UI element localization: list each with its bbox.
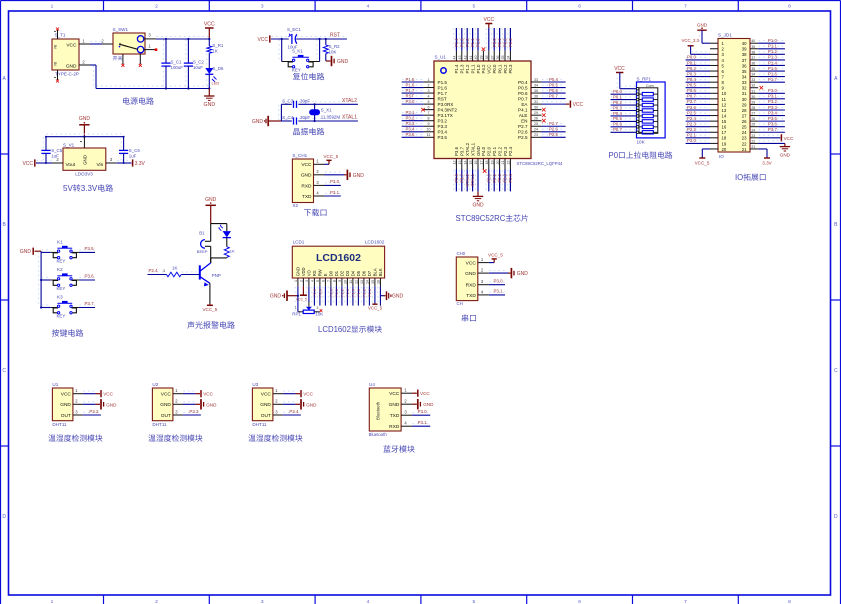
svg-text:P2.2: P2.2 — [687, 127, 696, 132]
svg-text:VCC: VCC — [466, 261, 477, 267]
svg-text:RXD: RXD — [466, 283, 477, 289]
svg-text:P3.3: P3.3 — [768, 105, 777, 110]
svg-text:1: 1 — [295, 306, 297, 310]
svg-text:P0.4: P0.4 — [613, 111, 622, 116]
svg-text:10uF: 10uF — [193, 65, 203, 70]
svg-text:12: 12 — [722, 102, 727, 107]
svg-text:BLK: BLK — [378, 268, 383, 276]
svg-text:P3.1: P3.1 — [418, 420, 428, 425]
svg-text:GND: GND — [204, 102, 216, 108]
svg-text:4: 4 — [428, 94, 430, 98]
svg-text:GND: GND — [252, 119, 264, 125]
svg-text:27: 27 — [751, 112, 755, 116]
svg-text:RST: RST — [438, 96, 447, 101]
svg-text:P1.7: P1.7 — [438, 91, 448, 96]
svg-text:D3: D3 — [345, 270, 350, 276]
svg-text:Bluetooth: Bluetooth — [376, 401, 381, 420]
svg-text:VCC: VCC — [389, 391, 400, 397]
svg-text:P2.2: P2.2 — [497, 173, 502, 182]
svg-text:8: 8 — [428, 117, 430, 121]
svg-text:VCC: VCC — [61, 392, 72, 398]
svg-text:P1.6: P1.6 — [406, 82, 415, 87]
svg-text:D0: D0 — [329, 270, 334, 276]
svg-text:P1.3: P1.3 — [459, 38, 464, 47]
svg-text:P2.5: P2.5 — [687, 110, 696, 115]
svg-text:XTAL1: XTAL1 — [342, 115, 357, 121]
svg-text:GND: GND — [476, 146, 481, 156]
svg-text:P2.6: P2.6 — [687, 105, 696, 110]
svg-text:15: 15 — [371, 280, 375, 284]
svg-text:P3.7: P3.7 — [85, 301, 95, 306]
svg-text:P3.3: P3.3 — [438, 124, 448, 129]
svg-text:10K: 10K — [315, 312, 323, 317]
svg-text:P4.2: P4.2 — [481, 64, 486, 74]
svg-text:P1.3: P1.3 — [367, 289, 372, 297]
svg-text:44: 44 — [453, 56, 457, 60]
svg-text:XTAL2: XTAL2 — [465, 142, 470, 156]
svg-text:24: 24 — [534, 128, 538, 132]
svg-text:D7: D7 — [367, 270, 372, 276]
svg-text:9: 9 — [428, 122, 430, 126]
svg-text:D2: D2 — [340, 270, 345, 276]
svg-text:E: E — [323, 273, 328, 276]
svg-text:8: 8 — [788, 599, 791, 604]
svg-text:P2.0: P2.0 — [687, 138, 696, 143]
svg-text:P2.0: P2.0 — [486, 173, 491, 182]
svg-text:26: 26 — [534, 117, 538, 121]
svg-text:8: 8 — [333, 280, 337, 282]
svg-text:LCD1602: LCD1602 — [365, 240, 385, 245]
svg-text:4: 4 — [367, 3, 370, 9]
svg-text:S_V1: S_V1 — [63, 142, 75, 147]
svg-text:P3.5: P3.5 — [85, 246, 95, 251]
svg-text:ALE: ALE — [519, 113, 528, 118]
svg-text:S_RP1: S_RP1 — [637, 76, 652, 81]
svg-text:GND: GND — [205, 197, 217, 203]
svg-text:3: 3 — [305, 280, 309, 282]
svg-text:21: 21 — [742, 147, 747, 152]
svg-text:S_D6: S_D6 — [212, 66, 224, 71]
svg-text:P1.1: P1.1 — [470, 38, 475, 47]
svg-text:24: 24 — [742, 130, 747, 135]
svg-text:P0.0: P0.0 — [613, 89, 622, 94]
svg-text:34: 34 — [507, 56, 511, 60]
svg-text:P1.1: P1.1 — [768, 44, 777, 49]
svg-text:41: 41 — [469, 56, 473, 60]
svg-text:P0.5: P0.5 — [549, 82, 558, 87]
svg-text:13: 13 — [458, 161, 462, 165]
svg-text:P3.7: P3.7 — [768, 127, 777, 132]
svg-text:P3.2: P3.2 — [89, 409, 99, 414]
svg-text:6: 6 — [322, 280, 326, 282]
svg-text:GND: GND — [697, 22, 708, 27]
svg-text:GND: GND — [160, 402, 171, 408]
svg-text:100uF: 100uF — [171, 65, 184, 70]
svg-text:P1.4: P1.4 — [768, 60, 777, 65]
svg-text:12: 12 — [453, 161, 457, 165]
svg-text:11: 11 — [427, 133, 431, 137]
svg-text:GND: GND — [270, 294, 282, 300]
svg-text:P3.0: P3.0 — [494, 279, 504, 284]
svg-text:1uF: 1uF — [51, 153, 59, 158]
svg-text:28: 28 — [751, 106, 755, 110]
svg-text:16: 16 — [377, 280, 381, 284]
svg-text:17: 17 — [722, 130, 727, 135]
svg-text:36: 36 — [751, 61, 755, 65]
svg-text:10: 10 — [344, 280, 348, 284]
svg-text:P0.6: P0.6 — [687, 88, 696, 93]
svg-text:P0.4: P0.4 — [518, 80, 528, 85]
svg-text:RS: RS — [312, 270, 317, 276]
svg-text:P2.6: P2.6 — [518, 130, 528, 135]
svg-text:3.3V: 3.3V — [135, 161, 146, 167]
svg-text:34: 34 — [751, 73, 755, 77]
svg-text:LED: LED — [212, 81, 220, 86]
svg-text:5: 5 — [472, 3, 475, 9]
svg-text:P0.5: P0.5 — [518, 85, 528, 90]
svg-text:VB: VB — [54, 61, 58, 66]
svg-text:C: C — [2, 368, 6, 374]
svg-text:CH: CH — [457, 301, 463, 306]
svg-text:VCC_3.3: VCC_3.3 — [682, 38, 700, 43]
svg-text:P2.5: P2.5 — [549, 132, 558, 137]
svg-text:VCC: VCC — [420, 391, 430, 396]
svg-text:P4.3INT2: P4.3INT2 — [438, 108, 458, 113]
svg-text:P3.5: P3.5 — [768, 116, 777, 121]
svg-text:S_EC1: S_EC1 — [287, 27, 301, 32]
svg-text:28: 28 — [742, 108, 747, 113]
svg-text:P3.7: P3.7 — [459, 173, 464, 182]
svg-text:43: 43 — [458, 56, 462, 60]
svg-text:P1.5: P1.5 — [768, 66, 777, 71]
svg-text:2: 2 — [155, 3, 158, 9]
svg-text:22: 22 — [742, 141, 747, 146]
svg-text:KEY: KEY — [57, 314, 66, 319]
svg-text:GND: GND — [306, 402, 317, 407]
svg-text:P3.3: P3.3 — [189, 409, 199, 414]
svg-text:VCC: VCC — [484, 17, 495, 23]
svg-text:P3.2: P3.2 — [406, 116, 415, 121]
svg-text:GND: GND — [517, 271, 529, 277]
svg-text:P3.6: P3.6 — [454, 173, 459, 182]
svg-text:P0.2: P0.2 — [503, 64, 508, 74]
svg-text:S_U1: S_U1 — [435, 55, 447, 60]
svg-text:25: 25 — [751, 123, 755, 127]
svg-text:P2.0: P2.0 — [329, 288, 334, 297]
svg-text:VCC: VCC — [103, 392, 113, 397]
svg-text:P2.7: P2.7 — [549, 121, 558, 126]
svg-text:P0.2: P0.2 — [613, 100, 622, 105]
svg-text:OUT: OUT — [61, 413, 71, 419]
svg-text:XTAL1: XTAL1 — [470, 142, 475, 156]
svg-text:P3.7: P3.7 — [460, 146, 465, 156]
svg-text:Vin: Vin — [96, 162, 103, 168]
svg-text:OUT: OUT — [161, 413, 171, 419]
svg-text:P0.5: P0.5 — [613, 116, 622, 121]
svg-text:P2.5: P2.5 — [518, 135, 528, 140]
svg-text:U1: U1 — [52, 382, 58, 387]
svg-text:P3.6: P3.6 — [85, 273, 95, 278]
svg-text:36: 36 — [742, 63, 747, 68]
svg-text:P0.0: P0.0 — [492, 38, 497, 47]
svg-text:STC89C52RC: STC89C52RC — [456, 214, 506, 223]
svg-text:9: 9 — [338, 280, 342, 282]
svg-text:P2.2: P2.2 — [497, 146, 502, 156]
svg-text:S_JD1: S_JD1 — [718, 33, 732, 38]
svg-text:RST: RST — [330, 33, 340, 39]
svg-text:VCC: VCC — [261, 392, 272, 398]
svg-text:DHT11: DHT11 — [252, 422, 267, 427]
svg-text:VCC: VCC — [487, 65, 492, 74]
svg-text:13: 13 — [360, 280, 364, 284]
svg-text:S_CH1: S_CH1 — [292, 153, 307, 158]
svg-text:K1: K1 — [57, 240, 63, 245]
svg-text:32: 32 — [742, 86, 747, 91]
svg-text:23: 23 — [742, 136, 747, 141]
svg-text:Com: Com — [646, 84, 654, 88]
svg-text:33: 33 — [534, 78, 538, 82]
svg-text:XTAL2: XTAL2 — [465, 173, 470, 186]
svg-text:37: 37 — [490, 56, 494, 60]
svg-text:VCC: VCC — [301, 162, 312, 168]
svg-text:2: 2 — [155, 599, 158, 604]
svg-text:XTAL1: XTAL1 — [470, 173, 475, 186]
svg-text:1: 1 — [294, 280, 298, 282]
svg-text:33: 33 — [742, 80, 747, 85]
svg-text:30pF: 30pF — [300, 98, 310, 103]
svg-text:3.3V: 3.3V — [81, 184, 98, 193]
svg-text:5V: 5V — [63, 184, 73, 193]
svg-text:P2.1: P2.1 — [334, 289, 339, 297]
svg-text:8: 8 — [788, 3, 791, 9]
svg-text:P1.1: P1.1 — [470, 64, 475, 74]
svg-text:36: 36 — [496, 56, 500, 60]
svg-text:14: 14 — [722, 113, 727, 118]
svg-text:U2: U2 — [152, 382, 158, 387]
svg-text:EN: EN — [521, 119, 527, 124]
svg-text:P3.3: P3.3 — [406, 121, 415, 126]
svg-text:VCC: VCC — [161, 392, 172, 398]
svg-text:1K: 1K — [172, 266, 177, 271]
svg-text:P1.4: P1.4 — [454, 38, 459, 47]
svg-text:P0.1: P0.1 — [497, 38, 502, 47]
svg-text:P0: P0 — [609, 151, 619, 160]
svg-text:VCC_5: VCC_5 — [488, 252, 503, 257]
svg-text:11.0592M: 11.0592M — [321, 115, 341, 120]
svg-text:P3.0: P3.0 — [768, 88, 777, 93]
svg-text:P0.1: P0.1 — [687, 60, 696, 65]
svg-text:P2.4: P2.4 — [149, 268, 159, 273]
svg-text:P1.1: P1.1 — [356, 289, 361, 297]
svg-text:27: 27 — [742, 113, 747, 118]
svg-text:P0.3: P0.3 — [687, 71, 696, 76]
svg-text:35: 35 — [501, 56, 505, 60]
svg-text:LCD1602: LCD1602 — [316, 252, 361, 264]
svg-text:P2.1: P2.1 — [492, 173, 497, 182]
svg-text:P2.3: P2.3 — [687, 121, 696, 126]
svg-text:25: 25 — [742, 125, 747, 130]
svg-text:S_C4: S_C4 — [282, 115, 294, 120]
svg-text:14: 14 — [366, 280, 370, 284]
svg-text:P0.1: P0.1 — [497, 64, 502, 74]
svg-text:D1: D1 — [334, 270, 339, 276]
svg-text:GND: GND — [780, 152, 791, 157]
svg-text:P1.2: P1.2 — [465, 38, 470, 47]
svg-text:35: 35 — [751, 67, 755, 71]
svg-text:P0.7: P0.7 — [687, 94, 696, 99]
svg-text:P2.6: P2.6 — [549, 127, 558, 132]
svg-text:32: 32 — [751, 84, 755, 88]
svg-text:31: 31 — [751, 89, 755, 93]
svg-text:P1.0: P1.0 — [476, 38, 481, 47]
svg-text:CH0: CH0 — [457, 251, 466, 256]
svg-text:BEEP: BEEP — [197, 249, 208, 254]
svg-text:10: 10 — [427, 128, 431, 132]
svg-text:S_C3: S_C3 — [282, 98, 294, 103]
svg-text:VCC: VCC — [573, 102, 584, 108]
svg-text:30: 30 — [751, 95, 755, 99]
svg-text:VCC: VCC — [22, 161, 33, 167]
svg-text:13: 13 — [722, 108, 727, 113]
svg-text:P1.2: P1.2 — [465, 64, 470, 74]
svg-text:D4: D4 — [351, 270, 356, 276]
svg-text:P1.0: P1.0 — [768, 38, 777, 43]
svg-text:GND: GND — [423, 402, 434, 407]
svg-text:XTAL2: XTAL2 — [342, 98, 357, 104]
svg-text:RW: RW — [318, 269, 323, 276]
svg-text:P1.0: P1.0 — [351, 288, 356, 297]
svg-text:P1.2: P1.2 — [362, 289, 367, 297]
svg-text:35: 35 — [534, 89, 538, 93]
svg-text:P1.2: P1.2 — [768, 49, 777, 54]
svg-text:7: 7 — [684, 599, 687, 604]
svg-text:16: 16 — [474, 161, 478, 165]
svg-text:29: 29 — [742, 102, 747, 107]
svg-text:34: 34 — [534, 83, 538, 87]
svg-text:4: 4 — [311, 280, 315, 282]
svg-text:P3.6: P3.6 — [454, 146, 459, 156]
svg-text:GND: GND — [206, 402, 217, 407]
svg-text:KEY: KEY — [57, 286, 66, 291]
svg-text:P3.1: P3.1 — [406, 110, 415, 115]
svg-text:2: 2 — [428, 83, 430, 87]
svg-text:C: C — [834, 368, 838, 374]
svg-text:7: 7 — [684, 3, 687, 9]
svg-text:24: 24 — [751, 128, 755, 132]
svg-text:P2.1: P2.1 — [687, 133, 696, 138]
svg-text:P3.4: P3.4 — [406, 127, 415, 132]
svg-text:3: 3 — [163, 269, 165, 273]
svg-text:IO: IO — [735, 173, 743, 182]
svg-text:14: 14 — [463, 161, 467, 165]
svg-text:39: 39 — [742, 47, 747, 52]
svg-text:P2.4: P2.4 — [687, 116, 696, 121]
svg-text:P3.4: P3.4 — [438, 130, 448, 135]
svg-text:P0.0: P0.0 — [492, 64, 497, 74]
svg-text:15: 15 — [469, 161, 473, 165]
svg-text:22: 22 — [507, 160, 511, 164]
svg-text:25: 25 — [534, 122, 538, 126]
svg-text:VCC: VCC — [257, 37, 268, 43]
svg-text:P3.0: P3.0 — [406, 99, 415, 104]
svg-text:GND: GND — [20, 249, 32, 255]
svg-text:EA: EA — [521, 102, 528, 107]
svg-text:P1.3: P1.3 — [460, 64, 465, 74]
svg-text:P3.0: P3.0 — [418, 409, 428, 414]
svg-text:U4: U4 — [369, 382, 375, 387]
svg-text:TXD: TXD — [466, 293, 476, 299]
svg-text:VCC_5: VCC_5 — [368, 305, 383, 310]
svg-text:GND: GND — [301, 173, 312, 179]
svg-text:P2.2: P2.2 — [340, 289, 345, 297]
svg-text:Bluetooth: Bluetooth — [369, 432, 388, 437]
svg-text:18: 18 — [722, 136, 727, 141]
svg-text:OUT: OUT — [261, 413, 271, 419]
svg-text:P3.2: P3.2 — [438, 119, 448, 124]
svg-text:P4.0: P4.0 — [481, 146, 486, 156]
svg-text:Vout: Vout — [66, 162, 76, 168]
svg-text:P3.0RX: P3.0RX — [438, 102, 454, 107]
svg-text:6: 6 — [578, 3, 581, 9]
svg-text:GND: GND — [296, 267, 301, 276]
svg-text:KEY: KEY — [292, 67, 301, 72]
svg-text:P0.4: P0.4 — [549, 77, 558, 82]
svg-text:42: 42 — [463, 56, 467, 60]
svg-text:20: 20 — [722, 147, 727, 152]
svg-text:P4.1: P4.1 — [518, 108, 528, 113]
svg-text:10: 10 — [722, 91, 727, 96]
svg-text:19: 19 — [722, 141, 727, 146]
svg-text:P0.4: P0.4 — [687, 77, 696, 82]
svg-text:GND: GND — [353, 173, 365, 179]
svg-text:GND: GND — [472, 203, 484, 209]
svg-text:3: 3 — [261, 3, 264, 9]
svg-text:RST: RST — [406, 93, 415, 98]
svg-text:P2.7: P2.7 — [518, 124, 528, 129]
svg-text:GND: GND — [392, 294, 404, 300]
svg-text:LCD1: LCD1 — [293, 240, 305, 245]
svg-text:3: 3 — [317, 306, 319, 310]
svg-text:P3.2: P3.2 — [768, 99, 777, 104]
svg-text:37: 37 — [742, 58, 747, 63]
svg-text:38: 38 — [742, 52, 747, 57]
svg-text:GND: GND — [465, 271, 476, 277]
svg-text:X2: X2 — [292, 203, 298, 208]
svg-text:GND: GND — [79, 116, 91, 122]
svg-text:36: 36 — [534, 94, 538, 98]
svg-text:U3: U3 — [252, 382, 258, 387]
svg-text:6: 6 — [578, 599, 581, 604]
svg-text:D: D — [2, 514, 6, 520]
svg-text:RXD: RXD — [389, 424, 400, 430]
svg-text:P0.3: P0.3 — [508, 64, 513, 74]
svg-text:K2: K2 — [57, 267, 63, 272]
svg-text:DHT11: DHT11 — [152, 422, 167, 427]
svg-text:P1.6: P1.6 — [438, 85, 448, 90]
svg-text:IO: IO — [719, 154, 724, 159]
svg-text:P2.1: P2.1 — [492, 146, 497, 156]
svg-text:P3.1TX: P3.1TX — [438, 113, 453, 118]
svg-text:VDD: VDD — [301, 267, 306, 276]
svg-text:16: 16 — [722, 125, 727, 130]
svg-text:P1.6: P1.6 — [768, 71, 777, 76]
svg-text:P1.5: P1.5 — [438, 80, 448, 85]
svg-text:VCC: VCC — [203, 392, 213, 397]
svg-text:20: 20 — [496, 161, 500, 165]
svg-text:P0.0: P0.0 — [687, 55, 696, 60]
svg-text:VCC: VCC — [614, 66, 625, 72]
svg-text:1: 1 — [428, 78, 430, 82]
